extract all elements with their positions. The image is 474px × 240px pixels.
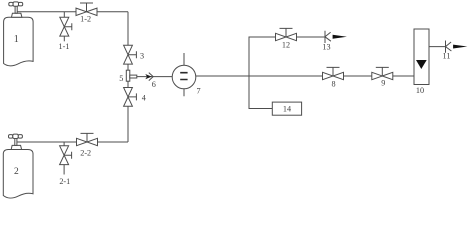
box 14 <box>272 102 301 115</box>
wire valve 1-2 to corner <box>97 11 128 13</box>
svg-text:2: 2 <box>14 167 19 177</box>
wire valve 4 down to bottom pipe <box>127 106 129 142</box>
svg-text:6: 6 <box>152 80 156 89</box>
valve 9 <box>372 67 393 79</box>
riser to box 14 <box>249 76 272 109</box>
cylinder 1 <box>4 2 33 66</box>
wire riser down to valve 3 <box>127 12 129 46</box>
svg-text:11: 11 <box>443 52 451 61</box>
valve 2-1 branch wire <box>63 142 65 146</box>
valve 2-2 <box>77 133 98 145</box>
svg-text:14: 14 <box>283 105 291 114</box>
vent 11 <box>446 41 468 53</box>
valve 1-1 branch wire <box>63 12 65 17</box>
vent 13 <box>325 31 347 43</box>
svg-text:9: 9 <box>381 79 385 88</box>
valve 1-2 <box>76 3 97 16</box>
valve 12 <box>276 28 297 40</box>
wire cylinder1 outlet to valve 1-2 <box>17 11 76 13</box>
tee node 5 <box>126 70 137 81</box>
wire tee 5 to valve 4 <box>127 81 129 87</box>
wire valve 2-2 to riser <box>98 141 129 143</box>
svg-text:12: 12 <box>282 41 290 50</box>
svg-text:5: 5 <box>119 74 123 83</box>
wire rotameter outlet to vent 11 <box>429 46 446 48</box>
svg-text:3: 3 <box>140 52 144 61</box>
svg-text:8: 8 <box>331 80 335 89</box>
valve 4 <box>124 88 137 107</box>
main wire circle 7 to valve 8 <box>196 75 323 77</box>
svg-text:2-1: 2-1 <box>59 177 70 186</box>
svg-text:10: 10 <box>416 86 424 95</box>
cylinder 2 <box>3 134 33 198</box>
svg-text:13: 13 <box>322 43 330 52</box>
svg-text:1-2: 1-2 <box>80 15 91 24</box>
valve 3 <box>124 45 137 64</box>
wire valve 9 to rotameter 10 <box>393 75 414 77</box>
valve 1-1 <box>60 17 72 41</box>
riser to upper branch <box>249 37 276 76</box>
circle 7 mixer <box>172 53 196 96</box>
arrow 6 <box>145 74 151 79</box>
wire tee 5 to circle 7 <box>137 76 173 78</box>
svg-text:2-2: 2-2 <box>80 149 91 158</box>
rotameter 10 <box>414 29 429 85</box>
svg-text:1-1: 1-1 <box>59 42 70 51</box>
svg-text:1: 1 <box>14 34 19 45</box>
wire valve 12 to vent 13 <box>297 36 326 38</box>
valve 2-1 <box>60 146 72 175</box>
valve 8 <box>323 67 344 79</box>
svg-text:4: 4 <box>142 93 146 102</box>
svg-text:7: 7 <box>197 87 201 96</box>
wire valve 8 to valve 9 <box>344 75 372 77</box>
wire cylinder2 outlet to valve 2-2 <box>17 141 77 143</box>
wire valve 3 to tee 5 <box>127 64 129 70</box>
